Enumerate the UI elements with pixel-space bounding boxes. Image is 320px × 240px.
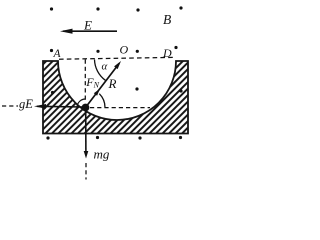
- svg-text:E: E: [83, 18, 92, 33]
- field dot row1 col4: [179, 6, 182, 9]
- small angle arc upper-left of ball: [77, 99, 86, 108]
- field dot row2 col1: [50, 49, 53, 52]
- svg-text:O: O: [120, 43, 129, 57]
- field dot row1 col3: [136, 8, 139, 11]
- svg-text:gE: gE: [19, 97, 33, 111]
- field dot row4 col3: [138, 136, 141, 139]
- dashed horizontal line left of gE label: [2, 105, 18, 107]
- dashed line A to D: [59, 57, 175, 59]
- field dot row4 col2: [96, 136, 99, 139]
- svg-text:α: α: [102, 61, 108, 73]
- arrow E field vector: [60, 29, 117, 34]
- svg-text:N: N: [93, 81, 100, 90]
- field dot row3 col4: [179, 89, 182, 92]
- ball: [82, 104, 90, 112]
- arrow gE electric force: [34, 104, 84, 109]
- field dot row3 col3: [135, 87, 138, 90]
- arrow mg gravity: [84, 108, 89, 159]
- dashed horizontal line right of ball: [90, 107, 150, 109]
- field dot row1 col2: [96, 7, 99, 10]
- radius line R with arrowhead at O: [86, 61, 122, 108]
- field dot row2 col3: [136, 50, 139, 53]
- dashed vertical line above ball: [84, 60, 86, 101]
- field dot row3 col1: [51, 91, 54, 94]
- field dot row4 col4: [179, 136, 182, 139]
- svg-text:R: R: [108, 76, 117, 91]
- block with hemispherical bowl: [43, 61, 188, 134]
- angle alpha arc at O: [95, 60, 106, 81]
- field dot row2 col4: [174, 46, 177, 49]
- normal force FN arrowhead on radius line: [94, 89, 100, 96]
- field dot row2 col2: [96, 50, 99, 53]
- field dot row1 col1: [50, 7, 53, 10]
- field dot row4 col1: [46, 136, 49, 139]
- angle arc between R and horizontal at ball: [99, 94, 105, 108]
- dashed vertical line below mg: [85, 163, 87, 180]
- svg-text:mg: mg: [94, 147, 110, 162]
- svg-text:B: B: [163, 12, 171, 27]
- svg-text:A: A: [53, 48, 62, 60]
